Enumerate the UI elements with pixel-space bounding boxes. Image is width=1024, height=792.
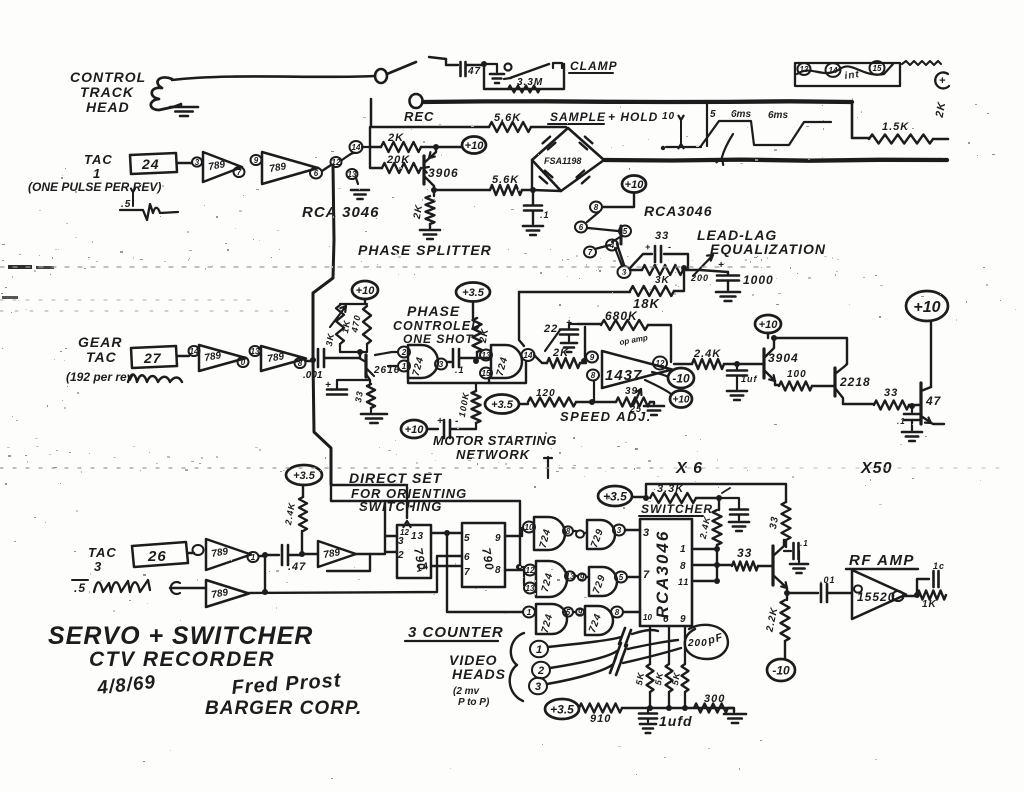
- supply +10 opamp: [645, 380, 671, 394]
- svg-text:2K: 2K: [412, 203, 426, 220]
- svg-text:470: 470: [349, 314, 362, 334]
- capacitor to ground switcher: [719, 498, 739, 508]
- svg-text:RCA 3046: RCA 3046: [302, 204, 379, 221]
- svg-text:3: 3: [398, 536, 405, 547]
- resistor 18K: [519, 291, 630, 293]
- svg-text:+10: +10: [759, 319, 779, 331]
- svg-text:789: 789: [269, 161, 288, 175]
- svg-text:3: 3: [195, 158, 200, 167]
- svg-text:RCA3046: RCA3046: [653, 530, 672, 619]
- svg-text:789: 789: [211, 587, 230, 601]
- clamp capacitor 47: [446, 59, 458, 65]
- pulse waveform 5 6ms 6ms: [706, 104, 708, 146]
- svg-text:1c: 1c: [933, 561, 945, 571]
- svg-text:3: 3: [535, 681, 541, 693]
- counter IC 790 first: [397, 525, 431, 578]
- svg-text:2218: 2218: [839, 375, 871, 389]
- svg-text:.001: .001: [303, 370, 323, 381]
- svg-text:5: 5: [623, 227, 628, 236]
- bottom rail: [622, 707, 733, 710]
- heavy wire from REC to right: [423, 99, 852, 104]
- svg-text:.1: .1: [540, 210, 550, 220]
- supply +10 motor: [401, 420, 427, 438]
- svg-text:8: 8: [680, 561, 687, 572]
- supply +10 cluster: [622, 176, 646, 193]
- box 24: [130, 153, 177, 174]
- resistor 3K vertical: [336, 305, 344, 344]
- svg-text:9: 9: [495, 533, 502, 544]
- svg-text:789: 789: [208, 159, 227, 173]
- svg-text:10: 10: [525, 523, 534, 532]
- wire junction down to bottom gate: [447, 533, 523, 612]
- svg-text:7: 7: [643, 569, 650, 581]
- svg-text:.1: .1: [897, 417, 906, 426]
- svg-text:1K: 1K: [922, 599, 937, 610]
- resistor 2K oneshot vertical: [473, 318, 482, 352]
- svg-text:-: -: [668, 242, 672, 252]
- svg-text:pF: pF: [706, 631, 725, 647]
- svg-text:-10: -10: [772, 663, 790, 677]
- bridge rectifier FSA1198: [532, 128, 604, 191]
- resistor 1K out: [917, 591, 946, 600]
- control track head coil: [151, 77, 173, 110]
- long wire tac3 bottom: [249, 556, 462, 593]
- supply +10 oneshot left: [352, 281, 378, 299]
- svg-text:5: 5: [619, 573, 624, 582]
- svg-text:2K: 2K: [387, 132, 404, 144]
- left edge dashes: [8, 265, 32, 269]
- svg-text:.1: .1: [800, 539, 809, 548]
- switcher transistor: [771, 546, 774, 585]
- svg-text:SAMPLE: SAMPLE: [550, 110, 606, 124]
- video head 2: [532, 662, 550, 679]
- pin circle 12 junction: [331, 157, 342, 167]
- svg-text:9: 9: [254, 156, 259, 165]
- supply +3.5 oneshot: [456, 283, 490, 302]
- buffer 789 tac3 top: [193, 545, 204, 555]
- svg-text:HEADS: HEADS: [452, 666, 506, 682]
- svg-text:1437: 1437: [605, 367, 642, 384]
- svg-text:3: 3: [617, 526, 622, 535]
- clamp contact: [553, 63, 562, 68]
- faint rule line 1: [0, 266, 770, 268]
- svg-text:+10: +10: [356, 285, 376, 297]
- svg-text:790: 790: [479, 547, 497, 572]
- svg-text:6ms: 6ms: [731, 109, 751, 120]
- resistor 2K opamp input: [534, 355, 547, 363]
- svg-text:SWITCHER: SWITCHER: [641, 502, 713, 516]
- wire bridge left vertex down: [531, 161, 533, 190]
- gate row C 724: [536, 604, 567, 634]
- svg-text:1uf: 1uf: [741, 374, 758, 384]
- svg-text:GEAR: GEAR: [78, 334, 122, 350]
- resistor 2.4K tac3 vertical: [301, 531, 303, 552]
- svg-text:int: int: [844, 69, 861, 82]
- svg-text:EQUALIZATION: EQUALIZATION: [710, 241, 826, 257]
- svg-text:6: 6: [464, 552, 471, 563]
- svg-text:2: 2: [537, 665, 544, 677]
- wires switcher pins right: [692, 548, 717, 550]
- speed adj +3.5: [485, 395, 519, 414]
- capacitor .001: [306, 360, 314, 362]
- resistor 2.4K vertical switcher: [718, 498, 720, 510]
- wire head to record switch: [172, 76, 374, 80]
- svg-text:5.6K: 5.6K: [494, 112, 521, 124]
- svg-text:3: 3: [643, 527, 650, 539]
- svg-text:5: 5: [710, 109, 717, 120]
- svg-text:+10: +10: [465, 140, 485, 152]
- svg-text:-: -: [455, 416, 459, 427]
- svg-text:.1: .1: [455, 365, 465, 375]
- wire emitter row 5.6K: [431, 187, 437, 193]
- wire gate feedback below: [408, 372, 489, 383]
- svg-text:+3.5: +3.5: [293, 470, 316, 482]
- svg-text:9: 9: [680, 614, 687, 625]
- REC node: [410, 94, 423, 108]
- svg-text:3 COUNTER: 3 COUNTER: [408, 624, 504, 641]
- heavy wire bridge output to right: [604, 160, 947, 161]
- svg-text:724: 724: [538, 527, 554, 549]
- svg-text:+3.5: +3.5: [550, 702, 574, 716]
- svg-text:5K: 5K: [634, 670, 646, 686]
- svg-text:+10: +10: [673, 395, 690, 406]
- capacitor 1uf to ground mid: [734, 361, 740, 367]
- wires IC2 to gate B: [505, 569, 524, 571]
- pot 200: [683, 270, 728, 272]
- svg-text:op amp: op amp: [619, 333, 649, 347]
- resistor 2K emitter 3906: [433, 190, 435, 196]
- faint rule line 2: [0, 467, 655, 469]
- clamp switch lever: [505, 64, 512, 71]
- svg-text:+: +: [645, 242, 651, 252]
- svg-text:P to P): P to P): [458, 697, 490, 708]
- transistor cluster pins 8 6 5 4 7: [590, 201, 602, 212]
- svg-text:100: 100: [787, 369, 807, 380]
- capacitor 1ufd: [647, 708, 649, 712]
- svg-text:26: 26: [147, 548, 167, 565]
- svg-text:1000: 1000: [743, 273, 774, 287]
- transistor 3904: [762, 349, 765, 378]
- bus corner into counter: [331, 484, 407, 487]
- video heads brace: [510, 633, 524, 701]
- svg-text:RCA3046: RCA3046: [644, 203, 712, 219]
- svg-text:724: 724: [540, 571, 556, 593]
- resistor 470 vertical: [363, 306, 371, 344]
- svg-text:14: 14: [190, 347, 199, 356]
- transistor 2616: [340, 344, 367, 352]
- supply +10 3904: [755, 315, 781, 333]
- svg-text:2K: 2K: [478, 327, 492, 344]
- svg-text:PHASE SPLITTER: PHASE SPLITTER: [358, 242, 492, 258]
- svg-text:NETWORK: NETWORK: [456, 447, 531, 462]
- svg-text:13: 13: [566, 572, 575, 581]
- svg-text:12: 12: [526, 566, 535, 575]
- svg-text:100K: 100K: [457, 391, 471, 418]
- svg-text:.47: .47: [288, 561, 306, 573]
- direct set arrow into IC: [406, 487, 408, 518]
- svg-text:729: 729: [589, 527, 606, 549]
- buffer 789 tac1 first: [192, 157, 202, 166]
- box 26: [132, 542, 188, 567]
- svg-text:39: 39: [625, 386, 638, 397]
- gate row B 724: [536, 561, 567, 597]
- gate 724 first: [408, 345, 438, 378]
- svg-text:TAC: TAC: [86, 349, 117, 365]
- svg-text:14: 14: [524, 351, 533, 360]
- svg-text:(ONE PULSE PER REV): (ONE PULSE PER REV): [28, 180, 161, 194]
- svg-text:+3.5: +3.5: [491, 399, 514, 411]
- svg-text:9: 9: [590, 353, 595, 362]
- svg-text:9: 9: [578, 608, 583, 617]
- resistor 33 vertical switcher: [782, 502, 791, 540]
- transistor 3906: [422, 156, 425, 184]
- capacitor .1 under bridge: [532, 190, 534, 204]
- svg-text:8: 8: [298, 359, 303, 368]
- rf amp 15520: [852, 570, 906, 619]
- pot arrow oneshot: [330, 306, 346, 327]
- pin circle 3 lead-lag: [617, 244, 624, 265]
- faint rule line 1b: [0, 299, 260, 301]
- counter IC 790 second: [462, 523, 505, 587]
- photocopy speckle: [550, 249, 551, 250]
- head coupling caps: [619, 628, 631, 646]
- supply -10 bottom: [767, 659, 795, 681]
- svg-text:(192 per rev: (192 per rev: [66, 370, 135, 384]
- ground at pins: [351, 189, 369, 192]
- svg-text:15520: 15520: [857, 590, 895, 604]
- buffer 789 tac1 second: [251, 155, 262, 165]
- svg-text:3904: 3904: [768, 351, 799, 365]
- svg-text:5: 5: [464, 533, 471, 544]
- svg-text:SERVO + SWITCHER: SERVO + SWITCHER: [48, 622, 313, 650]
- record switch contact: [375, 69, 387, 83]
- svg-text:6: 6: [579, 223, 584, 232]
- box 27: [131, 346, 177, 368]
- svg-text:RF AMP: RF AMP: [849, 552, 915, 569]
- svg-text:27: 27: [143, 350, 162, 366]
- resistor 2.2K vertical: [784, 590, 790, 596]
- svg-text:2K: 2K: [934, 100, 949, 119]
- INT box top right: [795, 63, 900, 86]
- wire switching row: [331, 485, 520, 567]
- svg-text:10: 10: [662, 111, 675, 122]
- svg-text:6: 6: [314, 169, 319, 178]
- wire to IC pins: [385, 501, 397, 552]
- svg-text:3906: 3906: [428, 166, 459, 180]
- svg-text:+10: +10: [913, 299, 940, 316]
- svg-text:24: 24: [141, 156, 160, 172]
- faint rule line 1c: [0, 310, 300, 312]
- svg-text:2K: 2K: [552, 347, 569, 359]
- supply +3.5 switcher: [598, 486, 632, 506]
- svg-text:+ HOLD: + HOLD: [608, 110, 658, 124]
- svg-text:1: 1: [527, 608, 532, 617]
- wire step down to 1.5K: [852, 102, 869, 138]
- svg-text:6: 6: [663, 614, 670, 625]
- svg-text:2.2K: 2.2K: [764, 606, 780, 634]
- svg-text:1.5K: 1.5K: [882, 121, 909, 133]
- ground oneshot: [361, 413, 387, 416]
- svg-text:47: 47: [467, 66, 481, 77]
- gear tac squiggle: [128, 375, 182, 383]
- svg-text:Fred Prost: Fred Prost: [231, 669, 343, 699]
- svg-text:789: 789: [204, 350, 223, 364]
- svg-text:22: 22: [543, 323, 558, 335]
- svg-text:5K: 5K: [653, 670, 665, 686]
- speed pot arrow: [633, 389, 641, 406]
- buffer 789 gear 1: [189, 346, 200, 356]
- supply +3.5 bottom: [545, 699, 579, 719]
- svg-text:9: 9: [580, 573, 585, 582]
- resistor 33 right: [843, 403, 874, 405]
- resistor 33 vertical oneshot: [369, 380, 371, 384]
- supply +3.5 tac3: [286, 465, 322, 485]
- svg-text:724: 724: [587, 612, 604, 634]
- svg-text:14: 14: [352, 143, 361, 152]
- svg-text:1: 1: [93, 166, 101, 181]
- 200 pF bubble: [685, 625, 728, 659]
- wire IC1 pin13 to IC2 pin5: [431, 532, 462, 534]
- svg-text:PHASE: PHASE: [407, 303, 460, 319]
- svg-text:724: 724: [411, 355, 427, 377]
- svg-text:FSA1198: FSA1198: [544, 156, 581, 166]
- svg-text:8: 8: [594, 203, 599, 212]
- svg-text:+10: +10: [405, 424, 425, 436]
- svg-text:BARGER CORP.: BARGER CORP.: [205, 698, 362, 719]
- svg-text:724: 724: [495, 355, 511, 377]
- resistor 3K lead-lag: [630, 269, 642, 271]
- svg-text:2.4K: 2.4K: [698, 515, 713, 541]
- long vertical bus from tac1: [313, 165, 334, 484]
- svg-text:13: 13: [526, 584, 535, 593]
- faint rule line 3: [660, 467, 1010, 469]
- svg-text:+10: +10: [625, 179, 645, 191]
- transistor 47: [919, 383, 922, 424]
- svg-text:11: 11: [678, 577, 689, 587]
- svg-text:8: 8: [615, 608, 620, 617]
- svg-text:33: 33: [768, 515, 781, 530]
- svg-text:6ms: 6ms: [768, 110, 788, 121]
- svg-text:33: 33: [737, 546, 752, 560]
- svg-text:680K: 680K: [605, 309, 638, 323]
- svg-text:MOTOR STARTING: MOTOR STARTING: [433, 433, 557, 448]
- svg-text:.5: .5: [74, 581, 86, 595]
- gate 724 second: [491, 345, 522, 378]
- svg-text:33: 33: [655, 230, 669, 242]
- capacitor .47: [265, 554, 279, 556]
- capacitor 1c out: [917, 579, 929, 595]
- svg-text:3K: 3K: [324, 331, 336, 347]
- supply +10 tac1: [462, 137, 486, 154]
- svg-text:CLAMP: CLAMP: [570, 59, 618, 73]
- svg-text:(2 mv: (2 mv: [453, 686, 481, 697]
- svg-text:TAC: TAC: [84, 152, 113, 167]
- vertical link above: [547, 457, 549, 478]
- svg-text:12: 12: [656, 359, 665, 368]
- wire switch to sample line: [371, 99, 489, 127]
- svg-text:2: 2: [397, 550, 405, 561]
- svg-text:0: 0: [241, 358, 246, 367]
- svg-text:3: 3: [439, 360, 444, 369]
- svg-text:15: 15: [482, 369, 491, 378]
- pin circle 14: [350, 141, 363, 153]
- svg-text:REC: REC: [404, 109, 434, 124]
- svg-text:SPEED ADJ.: SPEED ADJ.: [560, 409, 652, 424]
- svg-text:15: 15: [873, 64, 882, 73]
- svg-text:13: 13: [482, 351, 491, 360]
- svg-text:200: 200: [690, 273, 709, 283]
- svg-text:1: 1: [402, 362, 407, 371]
- svg-text:1: 1: [251, 553, 256, 562]
- svg-text:8: 8: [566, 527, 571, 536]
- capacitor .1 between gates: [447, 361, 451, 363]
- gate row A 724: [534, 517, 565, 550]
- svg-text:4/8/69: 4/8/69: [95, 672, 157, 699]
- svg-text:3.3M: 3.3M: [517, 77, 543, 88]
- gate row A 729: [587, 520, 615, 549]
- switcher IC RCA3046 box: [640, 519, 692, 626]
- svg-text:10: 10: [643, 613, 652, 622]
- svg-text:1: 1: [536, 644, 542, 656]
- svg-text:200: 200: [687, 638, 708, 649]
- svg-text:1: 1: [680, 544, 687, 555]
- svg-text:20K: 20K: [386, 154, 410, 166]
- svg-text:8: 8: [591, 371, 596, 380]
- wire bridge bottom to sample line: [533, 190, 561, 191]
- svg-text:7: 7: [237, 168, 242, 177]
- svg-text:3K: 3K: [655, 275, 670, 286]
- svg-text:X50: X50: [860, 460, 892, 477]
- svg-text:3: 3: [94, 559, 102, 574]
- supply +10 big right: [906, 291, 948, 321]
- buffer 789 tac3 bottom: [170, 587, 206, 589]
- wires IC2 to gate A: [505, 528, 522, 536]
- svg-text:789: 789: [211, 546, 230, 560]
- svg-text:33: 33: [353, 390, 365, 404]
- svg-text:13: 13: [251, 347, 260, 356]
- wire IC1 pin14 to IC2 pin7: [431, 565, 462, 567]
- svg-text:13: 13: [411, 531, 424, 542]
- video head 1: [530, 641, 548, 658]
- wire top loop to 33: [646, 484, 786, 502]
- resistor 2.4K opamp out: [674, 363, 692, 365]
- svg-text:+3.5: +3.5: [462, 287, 485, 299]
- svg-text:5: 5: [566, 608, 571, 617]
- svg-text:910: 910: [590, 713, 611, 725]
- capacitor .1 switcher collector: [784, 550, 791, 552]
- hand arrow on waveform: [722, 134, 733, 157]
- switcher bottom pin wires with 5K resistors: [649, 626, 651, 664]
- resistor 100K vertical: [472, 391, 481, 423]
- transistor 2218: [833, 368, 836, 396]
- video head 3: [529, 678, 547, 695]
- resistor 910: [579, 704, 622, 713]
- buffer 789 gear 2: [250, 346, 261, 356]
- buffer 789 tac3 mid: [318, 541, 356, 567]
- svg-text:+: +: [939, 75, 946, 87]
- clamp loop wire: [484, 64, 564, 89]
- svg-text:+3.5: +3.5: [603, 489, 627, 503]
- svg-text:33: 33: [884, 387, 898, 399]
- svg-text:CONTROL: CONTROL: [70, 69, 146, 85]
- svg-text:47: 47: [925, 394, 942, 408]
- svg-text:TRACK: TRACK: [80, 84, 134, 100]
- ground below head coil: [180, 104, 182, 106]
- sawtooth top right: [902, 61, 941, 65]
- circle plus top right: [935, 72, 949, 88]
- svg-text:1ufd: 1ufd: [659, 713, 693, 729]
- svg-text:2.4K: 2.4K: [283, 501, 297, 527]
